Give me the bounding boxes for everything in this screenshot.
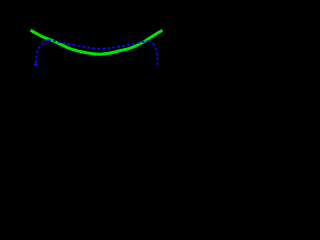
blue dashed curve left steep branch <box>36 40 48 65</box>
blue horizontal end dash at bottom of left branch <box>34 64 38 66</box>
blue dashed curve middle branch <box>48 40 149 49</box>
blue dashed curve right steep branch <box>149 41 158 68</box>
green solid curve <box>31 30 163 54</box>
